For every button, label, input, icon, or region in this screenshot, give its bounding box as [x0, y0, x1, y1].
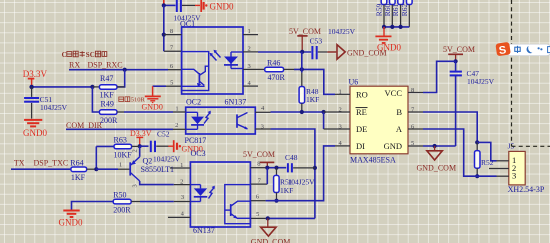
svg-text:A: A	[396, 124, 403, 134]
svg-text:5V_COM: 5V_COM	[289, 27, 321, 36]
net label COM_DIR	[66, 121, 103, 130]
svg-text:1: 1	[175, 105, 178, 112]
svg-text:GND0: GND0	[142, 103, 163, 112]
resistor R60	[383, 0, 395, 27]
wire	[156, 145, 168, 147]
wire R50 net	[72, 202, 114, 210]
power GND_COM (arrow)	[327, 45, 386, 60]
label note (red)	[119, 97, 146, 104]
svg-text:4: 4	[261, 105, 265, 112]
resistor R62	[400, 0, 412, 27]
svg-text:510R: 510R	[131, 97, 146, 104]
svg-text:104J25V: 104J25V	[40, 103, 68, 112]
wire	[162, 3, 176, 7]
resistor R61	[391, 0, 403, 27]
svg-text:TX: TX	[14, 158, 25, 167]
wire RE/DE net	[271, 110, 326, 129]
wire	[92, 87, 99, 112]
svg-text:3: 3	[512, 171, 516, 181]
wire D3.3V rail	[29, 85, 94, 89]
svg-text:R46: R46	[267, 58, 280, 67]
svg-text:XH2.54-3P: XH2.54-3P	[508, 185, 545, 194]
wire RX	[69, 68, 168, 72]
wire	[140, 201, 174, 203]
svg-text:1KF: 1KF	[71, 173, 86, 182]
capacitor C53	[310, 27, 356, 60]
svg-text:R49: R49	[101, 99, 114, 108]
wire RO net	[294, 67, 335, 94]
svg-text:SC: SC	[86, 51, 95, 59]
svg-text:GND0: GND0	[210, 1, 234, 11]
note (red) C port for SC comm	[62, 51, 107, 59]
ground GND0 (C52)	[168, 140, 203, 153]
wire OC3 pin6 to DI	[266, 146, 335, 201]
svg-text:R52: R52	[481, 158, 494, 167]
svg-text:104J25V: 104J25V	[328, 27, 356, 36]
wire	[293, 167, 315, 169]
resistor R50 200R	[113, 190, 140, 214]
svg-text:3: 3	[261, 124, 264, 131]
svg-text:2: 2	[248, 45, 251, 52]
wire	[140, 145, 149, 147]
svg-text:4: 4	[181, 211, 185, 218]
svg-text:2: 2	[132, 149, 139, 152]
connector J5 XH2.54-3P	[489, 141, 545, 194]
svg-text:3: 3	[181, 194, 184, 201]
node TX/R63	[94, 167, 98, 171]
wire Q2 emitter	[139, 146, 141, 157]
power 5V_COM (OC3)	[243, 150, 275, 168]
svg-text:C53: C53	[310, 36, 323, 45]
svg-text:104J25V: 104J25V	[467, 77, 495, 86]
svg-text:R50: R50	[113, 190, 126, 199]
svg-text:7: 7	[170, 45, 174, 52]
svg-text:3: 3	[339, 123, 342, 130]
optocoupler OC2 PC817	[173, 98, 271, 145]
svg-text:200R: 200R	[100, 116, 118, 125]
transistor Q2 S8550LT1	[118, 149, 174, 187]
capacitor C50 (top, value 104J25V)	[174, 0, 202, 23]
wire OC2 pin3 down	[271, 129, 318, 218]
svg-text:B: B	[396, 107, 402, 117]
wire COM_DIR	[66, 128, 173, 130]
wire	[162, 5, 166, 51]
wire C47 to gnd net	[455, 75, 457, 146]
svg-text:GND: GND	[384, 141, 402, 151]
ground GND0 (C51)	[23, 120, 47, 138]
power D3.3V (left)	[23, 69, 48, 87]
svg-text:8: 8	[411, 87, 414, 94]
svg-text:RX: RX	[69, 60, 80, 69]
resistor R48 1KF	[299, 73, 319, 112]
svg-text:2: 2	[180, 178, 183, 185]
resistor R52	[475, 142, 494, 178]
svg-text:5V_COM: 5V_COM	[243, 150, 275, 159]
svg-text:R62: R62	[400, 3, 409, 16]
svg-text:U6: U6	[349, 77, 359, 86]
node D3.3V/Q2	[138, 144, 142, 148]
svg-text:R63: R63	[114, 136, 127, 145]
power D3.3V (Q2)	[130, 129, 152, 146]
svg-text:5: 5	[170, 80, 173, 87]
resistor R63 10KF	[96, 136, 139, 160]
svg-text:6N137: 6N137	[193, 226, 215, 235]
IC U6 MAX485ESA	[324, 77, 423, 164]
power 5V_COM (U6)	[443, 45, 475, 63]
wire U6 pin8 to 5V	[423, 61, 456, 92]
resistor R46 470R	[258, 58, 294, 82]
wire 5V to R48	[301, 52, 303, 73]
svg-text:5: 5	[256, 211, 259, 218]
wire Q2 collector to OC3	[140, 181, 174, 185]
svg-text:C: C	[62, 51, 67, 59]
sogou toolbar overlay	[495, 42, 550, 58]
svg-text:GND0: GND0	[59, 218, 83, 228]
svg-text:C48: C48	[285, 153, 298, 162]
svg-text:D3.3V: D3.3V	[23, 69, 48, 79]
ground GND0 (R50)	[59, 211, 83, 228]
svg-text:3: 3	[132, 184, 139, 187]
svg-text:6: 6	[256, 194, 260, 201]
wire TX	[11, 168, 71, 170]
svg-text:DSP_RXC: DSP_RXC	[88, 60, 123, 69]
svg-text:OC2: OC2	[186, 98, 201, 107]
svg-text:VCC: VCC	[385, 88, 403, 98]
svg-text:2: 2	[175, 122, 178, 129]
svg-text:DSP_TXC: DSP_TXC	[34, 158, 69, 167]
power 5V_COM (top)	[289, 27, 321, 54]
svg-text:6N137: 6N137	[225, 98, 247, 107]
svg-text:C52: C52	[157, 129, 170, 138]
wire	[96, 168, 118, 170]
net label TX DSP_TXC	[14, 158, 68, 167]
svg-text:R47: R47	[100, 74, 113, 83]
capacitor C52 104J25V	[151, 129, 181, 163]
wire OC3 pin7 tie	[266, 168, 268, 184]
wire OC1 pin2 to 5V node	[258, 51, 311, 53]
ground GND0 (bank)	[375, 27, 401, 53]
svg-text:3: 3	[248, 63, 251, 70]
resistor R49 200R	[99, 99, 124, 125]
svg-text:R61: R61	[391, 3, 400, 16]
capacitor C51 104J25V	[24, 87, 68, 119]
sheet border dashed	[512, 0, 550, 146]
capacitor C47 104J25V	[450, 61, 495, 86]
svg-text:GND0: GND0	[377, 43, 401, 53]
wire U6 pin5 gnd	[423, 144, 456, 148]
svg-text:470R: 470R	[268, 73, 286, 82]
svg-text:2: 2	[339, 106, 342, 113]
resistor R51 1KF	[274, 168, 316, 203]
svg-text:GND0: GND0	[23, 128, 47, 138]
ground GND0 (OC1 pin5)	[142, 86, 167, 111]
svg-text:MAX485ESA: MAX485ESA	[350, 156, 396, 165]
svg-text:8: 8	[170, 28, 173, 35]
optocoupler OC1 6N137	[164, 20, 258, 107]
svg-text:1KF: 1KF	[306, 95, 319, 104]
resistor R47 1KF	[92, 74, 124, 100]
capacitor C48	[285, 153, 298, 173]
svg-text:1: 1	[248, 28, 251, 35]
ground GND0 (top)	[195, 0, 234, 12]
power GND_COM (OC3)	[251, 218, 291, 243]
svg-text:1: 1	[180, 162, 183, 169]
wire	[95, 146, 97, 169]
wire	[124, 111, 173, 113]
power GND_COM (U6)	[417, 146, 457, 173]
wire A net	[423, 129, 497, 176]
svg-text:5: 5	[411, 140, 414, 147]
svg-text:OC3: OC3	[191, 149, 206, 158]
svg-text:GND_COM: GND_COM	[251, 237, 291, 243]
wire	[117, 70, 125, 87]
svg-text:10KF: 10KF	[114, 151, 133, 160]
svg-text:200R: 200R	[113, 206, 131, 215]
wire resistor bank bus	[382, 25, 409, 29]
svg-text:GND_COM: GND_COM	[417, 164, 457, 173]
wire	[318, 51, 328, 53]
optocoupler OC3 6N137	[168, 149, 267, 235]
wire OC3 pin8	[265, 166, 286, 170]
svg-text:1: 1	[119, 162, 122, 169]
svg-text:104J25V: 104J25V	[288, 177, 316, 186]
svg-text:RO: RO	[356, 89, 368, 99]
resistor R64 1KF	[70, 159, 96, 183]
svg-text:104J25V: 104J25V	[153, 155, 181, 164]
svg-text:5V_COM: 5V_COM	[443, 45, 475, 54]
svg-text:DI: DI	[356, 141, 365, 151]
svg-text:R64: R64	[70, 159, 83, 168]
svg-text:1: 1	[339, 89, 342, 96]
resistor R59	[375, 0, 387, 27]
net label RX DSP_RXC	[69, 60, 123, 69]
power stub (cut at top)	[163, 0, 165, 5]
svg-text:DE: DE	[356, 124, 367, 134]
wire B net	[423, 112, 497, 161]
wire	[182, 4, 195, 6]
svg-text:S8550LT1: S8550LT1	[141, 165, 175, 174]
wire OC3 pin5 gnd	[266, 216, 315, 220]
svg-text:1KF: 1KF	[280, 186, 293, 195]
svg-text:RE: RE	[356, 107, 367, 117]
svg-text:7: 7	[258, 177, 262, 184]
svg-text:6: 6	[170, 63, 174, 70]
